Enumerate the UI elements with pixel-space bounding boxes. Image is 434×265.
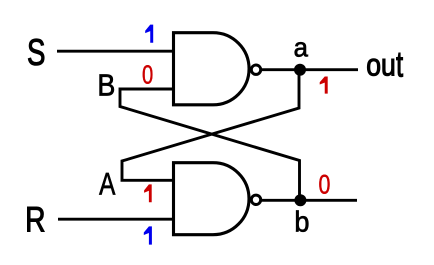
svg-text:b: b bbox=[294, 206, 309, 238]
nand gate U1 top body bbox=[174, 33, 250, 105]
wire node b output bbox=[261, 199, 357, 202]
wire node a to out bbox=[261, 68, 358, 71]
value 1 on S input bbox=[145, 25, 153, 43]
nand gate U2 inversion bubble bbox=[251, 195, 260, 204]
svg-text:a: a bbox=[294, 32, 309, 63]
svg-text:ou: ou bbox=[366, 49, 396, 84]
svg-text:A: A bbox=[99, 165, 115, 201]
svg-text:t: t bbox=[396, 43, 403, 85]
svg-text:0: 0 bbox=[319, 170, 331, 200]
svg-text:S: S bbox=[27, 32, 45, 73]
wire A input cross-coupled from node a bbox=[122, 70, 299, 181]
nand gate U1 inversion bubble bbox=[251, 65, 260, 74]
junction dot node a bbox=[294, 64, 306, 76]
wire S input bbox=[57, 50, 173, 53]
svg-text:R: R bbox=[25, 200, 45, 240]
wire B input cross-coupled from node b bbox=[120, 89, 300, 200]
svg-text:0: 0 bbox=[142, 60, 153, 89]
nand gate U2 bottom body bbox=[174, 163, 250, 235]
value 1 on node a bbox=[320, 77, 328, 94]
value 1 on A input bbox=[144, 184, 152, 202]
svg-text:B: B bbox=[97, 69, 115, 103]
wire R input bbox=[58, 218, 173, 221]
junction dot node b bbox=[294, 194, 306, 206]
value 1 on R input bbox=[144, 226, 152, 244]
